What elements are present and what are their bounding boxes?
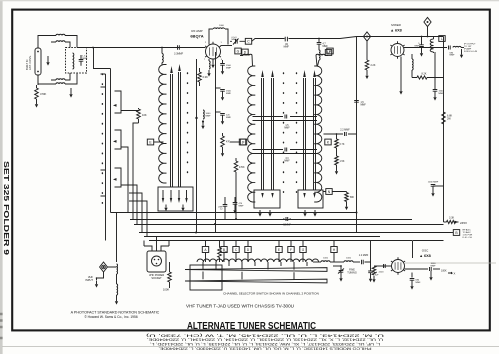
- svg-text:MMF: MMF: [232, 39, 238, 41]
- svg-text:FOR K & L/M: FOR K & L/M: [464, 51, 477, 53]
- svg-text:MMF: MMF: [415, 45, 421, 47]
- strip1 left wave coil: [159, 65, 164, 184]
- svg-text:2W: 2W: [447, 118, 451, 121]
- bus line 3: [134, 224, 444, 226]
- balun coil L1c: [56, 79, 65, 80]
- osc feed wire: [412, 241, 414, 259]
- if out coil: [453, 46, 461, 47]
- balun coil L1a: [56, 34, 65, 35]
- svg-text:470K: 470K: [239, 166, 245, 169]
- svg-text:1000 MMF: 1000 MMF: [428, 182, 439, 184]
- svg-text:3.3MMF: 3.3MMF: [174, 53, 184, 56]
- cap 1500 mixer: [434, 52, 436, 89]
- svg-text:1000: 1000: [346, 258, 352, 260]
- svg-text:E: E: [278, 248, 280, 252]
- RF AGC line: [451, 232, 453, 234]
- B plus 245V: [444, 221, 447, 223]
- wire ladder 6: [111, 212, 152, 214]
- cathode coil: [208, 59, 210, 61]
- svg-text:100K: 100K: [441, 270, 447, 273]
- cap 120MMF: [215, 111, 221, 113]
- if out cap: [449, 46, 451, 50]
- resistor 8.2K: [411, 70, 413, 78]
- svg-text:8.2K: 8.2K: [422, 73, 427, 76]
- svg-text:L: L: [441, 37, 443, 41]
- ground mixer: [400, 57, 402, 89]
- svg-text:1000: 1000: [219, 25, 225, 27]
- net label box H: [327, 48, 333, 54]
- strip1 bottom box: [158, 187, 193, 211]
- B+ vertical: [443, 37, 445, 223]
- net label box N: [326, 189, 332, 195]
- shaft link wires: [203, 266, 294, 280]
- svg-text:2200: 2200: [379, 272, 385, 274]
- coil drop to strip3: [318, 44, 320, 50]
- svg-text:MMF: MMF: [226, 67, 232, 69]
- net label box K: [325, 139, 331, 145]
- bus line 4: [139, 232, 451, 234]
- svg-text:K & L CH.: K & L CH.: [463, 237, 473, 239]
- plate coil loop: [209, 29, 228, 45]
- bus line 6: [149, 240, 412, 242]
- cap 470MMF bus: [234, 197, 236, 202]
- svg-text:A PHOTOFACT STANDARD NOTATI: A PHOTOFACT STANDARD NOTATION SCHEMATIC: [71, 311, 160, 315]
- junction dots on grid wire: [92, 47, 94, 49]
- svg-text:MMF: MMF: [284, 160, 290, 162]
- trap capacitor: [79, 60, 84, 62]
- svg-text:G: G: [237, 49, 240, 53]
- svg-text:3.3K: 3.3K: [449, 217, 454, 220]
- wire balun top: [38, 36, 77, 49]
- ground cathode: [208, 70, 210, 73]
- osc grid res: [374, 265, 379, 267]
- coupling wires lower: [253, 150, 318, 154]
- capacitor 3.3MMF series: [178, 45, 180, 50]
- svg-text:MMF: MMF: [206, 115, 212, 117]
- osc out gnd: [430, 271, 432, 274]
- dashed trap box: [66, 48, 87, 74]
- osc tube V3: [392, 260, 405, 273]
- cap 1.5 fine: [370, 262, 372, 271]
- strip2 contact dots: [283, 73, 285, 195]
- svg-text:X: X: [454, 272, 456, 276]
- wire mixer plate: [404, 47, 447, 49]
- cap 1500MMF a: [215, 87, 221, 89]
- mixer grid line: [356, 37, 358, 233]
- wire ant down: [37, 75, 39, 85]
- wire ladder 1: [125, 147, 128, 213]
- svg-text:1000: 1000: [323, 258, 329, 260]
- net label box F: [240, 139, 246, 145]
- svg-text:MMF: MMF: [361, 104, 367, 106]
- svg-text:10K: 10K: [142, 113, 147, 117]
- coil 1000 fine b: [344, 261, 353, 262]
- upside-down model list: [144, 333, 384, 350]
- net label box G: [235, 48, 241, 54]
- bus line 2: [130, 219, 412, 221]
- switch contact dots: [101, 74, 103, 208]
- cap .82MMF series: [285, 37, 287, 42]
- resistor 10K switch: [125, 108, 139, 111]
- svg-text:MMF: MMF: [82, 58, 88, 60]
- ground stub mid: [70, 88, 72, 91]
- resistor 470 ohm: [222, 133, 224, 136]
- wire ladder 5: [129, 201, 147, 237]
- uhf socket wires: [144, 237, 169, 252]
- svg-text:UUF: UUF: [374, 274, 379, 276]
- osc out cap 1000: [430, 267, 432, 271]
- resistor 2.2K osc inj: [365, 60, 369, 70]
- svg-text:J: J: [242, 140, 244, 144]
- strip2 arrow 1: [262, 78, 264, 190]
- switch contact 2: [115, 130, 126, 149]
- resistor 6.8K 2W: [442, 112, 446, 124]
- wire 470K drop: [235, 175, 237, 219]
- trimmer cap 0.5-3: [236, 39, 238, 44]
- uhf filter coil 1: [117, 264, 118, 274]
- resistor 470K ant: [35, 88, 39, 99]
- strip2 bottom box: [254, 190, 280, 208]
- osc fold line: [405, 262, 496, 264]
- ground if out: [461, 49, 463, 52]
- svg-text:MMF: MMF: [450, 55, 456, 57]
- strip3 wave ticks: [314, 66, 317, 202]
- cap 2.2MMF: [345, 132, 347, 136]
- svg-text:U, M, 22D4143, L, U, UL, 22D41: U, M, 22D4143, L, U, UL, 22D4145, M, T, …: [144, 333, 384, 337]
- cap 1.2MMF fine: [362, 260, 364, 264]
- switch stub wires left: [101, 74, 106, 196]
- wire down to switch: [94, 48, 111, 69]
- svg-text:▲ 6X8: ▲ 6X8: [419, 254, 431, 258]
- wire plate to trimmer: [221, 45, 233, 47]
- svg-text:1.2 MMF: 1.2 MMF: [359, 254, 369, 257]
- mixer tube V2: [391, 44, 404, 57]
- svg-text:2.2K: 2.2K: [371, 64, 376, 67]
- strip1 label wire2: [230, 141, 240, 143]
- selector coil chain: [197, 259, 319, 262]
- switch contact 3: [115, 168, 130, 187]
- strip3 right wave: [317, 66, 322, 202]
- net label box M: [325, 50, 331, 56]
- coupling wires upper: [253, 117, 318, 121]
- balun coil L1d: [56, 83, 65, 84]
- svg-text:MMF: MMF: [431, 265, 437, 267]
- strip1 arrow 1: [171, 74, 173, 187]
- net label box L: [439, 36, 445, 42]
- ground balun center: [47, 56, 49, 59]
- resistor 470K b: [235, 158, 237, 161]
- selector chain ticks: [203, 262, 307, 266]
- strip3 grounds: [304, 210, 306, 213]
- strip3 arrow 2: [314, 78, 316, 190]
- cap 5MMF mixer: [421, 37, 423, 45]
- resistor 6.7K: [336, 134, 338, 139]
- net label box D: [242, 49, 248, 55]
- strip3 arrow 1: [304, 78, 306, 190]
- svg-text:MMF: MMF: [226, 117, 232, 119]
- page fold line bottom: [2, 346, 499, 348]
- VHF input socket: [100, 262, 108, 272]
- svg-text:CHANNEL SELECTOR SWITCH SHOWN: CHANNEL SELECTOR SWITCH SHOWN IN CHANNEL…: [223, 292, 319, 296]
- cap 68MMF bus: [283, 218, 285, 220]
- selector shaft arrow 2: [185, 279, 327, 283]
- feed blob: [202, 120, 204, 122]
- svg-text:▲ 6X8: ▲ 6X8: [390, 29, 402, 33]
- svg-text:MMF: MMF: [284, 127, 290, 129]
- svg-text:© Howard W. Sams & Co., Inc. 1: © Howard W. Sams & Co., Inc. 1956: [84, 315, 138, 319]
- uhf power socket: [152, 256, 162, 266]
- binding marks: [0, 314, 3, 338]
- wire mixer top: [357, 36, 444, 38]
- svg-text:SET 325 FOLDER 9: SET 325 FOLDER 9: [2, 161, 11, 255]
- resistor 2.3K: [199, 68, 201, 72]
- svg-text:MMF: MMF: [239, 205, 245, 207]
- strip3 bottom box: [298, 190, 323, 208]
- strip2 wave ticks: [253, 66, 256, 202]
- svg-text:INPUT: INPUT: [85, 278, 93, 282]
- coil 1000 fine a: [321, 261, 330, 262]
- svg-text:470K: 470K: [40, 92, 46, 96]
- mixer osc coil: [430, 37, 433, 53]
- selector shaft arrow 1: [185, 268, 327, 272]
- uhf power socket box: [147, 251, 166, 272]
- svg-text:ANT. CONN.: ANT. CONN.: [28, 55, 32, 70]
- svg-text:2.2 MMF: 2.2 MMF: [340, 129, 350, 132]
- svg-text:MMF: MMF: [323, 46, 329, 48]
- coil 1000MMF feed: [203, 110, 204, 119]
- cap 4.7MMF drop: [318, 39, 320, 43]
- svg-text:6.7K: 6.7K: [340, 143, 345, 146]
- wire ladder 3: [129, 185, 137, 224]
- resistor 47K: [219, 241, 221, 248]
- uhf filter coil 2: [117, 284, 118, 295]
- svg-text:B: B: [223, 248, 225, 252]
- osc out wire: [405, 268, 429, 270]
- net label box J: [239, 139, 245, 145]
- svg-text:TUNING: TUNING: [347, 272, 357, 275]
- shaft box: [190, 265, 222, 290]
- svg-text:100K: 100K: [163, 288, 169, 292]
- cap line end: [224, 197, 226, 204]
- page top edge: [0, 0, 499, 1]
- wire screen drop: [196, 59, 198, 233]
- net diamond A: [363, 32, 370, 41]
- wafer bus stubs: [206, 241, 335, 247]
- RF amp tube V1: [206, 44, 221, 59]
- cap 1500 under tube: [222, 60, 224, 63]
- svg-text:245V: 245V: [460, 221, 467, 225]
- trap coil: [73, 53, 74, 69]
- net label box E: [147, 139, 153, 145]
- strip2 arrow 2: [272, 78, 274, 190]
- svg-text:1.5K: 1.5K: [340, 160, 345, 163]
- cap 1.5MMF mixergrid: [353, 98, 360, 100]
- svg-text:MIXER: MIXER: [391, 23, 401, 27]
- resistor 100K: [169, 262, 171, 272]
- net diamond B top: [424, 17, 431, 26]
- wire balun bottom: [38, 73, 77, 84]
- coupling cap 1.5MMF: [285, 115, 287, 119]
- mixer cathode coil: [411, 54, 413, 59]
- svg-text:MMF: MMF: [226, 93, 232, 95]
- cap 1000MMF bplus: [433, 185, 444, 187]
- svg-text:OSC: OSC: [422, 249, 429, 253]
- wire ladder 2: [133, 123, 139, 219]
- wire antenna to RF grid: [77, 47, 206, 49]
- strip1 grounds: [165, 205, 167, 208]
- bypass column wire: [215, 52, 217, 233]
- ground tube center: [212, 59, 214, 62]
- channel selector wafers: [202, 247, 208, 253]
- svg-text:ALTERNATE TUNER SCHEMATIC: ALTERNATE TUNER SCHEMATIC: [187, 321, 316, 332]
- svg-text:2.3K: 2.3K: [203, 75, 209, 79]
- wire vhf input: [97, 267, 117, 281]
- svg-text:F: F: [290, 248, 292, 252]
- strip3 contact dots: [296, 73, 298, 195]
- switch contact 1: [115, 91, 126, 113]
- antenna terminal board: [35, 48, 41, 75]
- strip1 contact dots: [187, 73, 189, 177]
- strip2 top coil: [243, 54, 252, 55]
- strip2 left wave: [248, 66, 253, 202]
- wire chain right: [313, 261, 321, 263]
- svg-text:6BQ7A: 6BQ7A: [190, 34, 203, 39]
- switch bus line a: [105, 74, 107, 241]
- strip1 arrow 2: [179, 72, 181, 187]
- osc cathode gnd: [411, 273, 413, 278]
- ground vhf: [96, 281, 98, 284]
- wire ladder 4: [129, 193, 142, 233]
- strip2 grounds: [259, 210, 261, 213]
- coupling cap 3.3MMF: [285, 148, 287, 152]
- bus line 5: [144, 236, 380, 238]
- svg-text:MMF: MMF: [284, 46, 290, 48]
- svg-text:MMF: MMF: [416, 282, 422, 284]
- plate coil: [214, 28, 225, 29]
- resistor 1.5K: [336, 148, 338, 156]
- bus line 1: [127, 212, 357, 214]
- fine tuning cap: [340, 266, 342, 270]
- svg-text:SOCKET: SOCKET: [151, 277, 162, 280]
- strip1 label wire: [154, 141, 164, 143]
- resistor 680 strip3: [346, 192, 348, 193]
- svg-text:VHF TUNER T-JAD USED WITH CHAS: VHF TUNER T-JAD USED WITH CHASSIS TV-300…: [186, 304, 294, 309]
- balun coil L1b: [56, 41, 65, 42]
- strip3 top coil: [316, 54, 325, 55]
- net label box C: [245, 38, 251, 44]
- neut cap: [215, 25, 217, 27]
- svg-text:470: 470: [226, 141, 231, 144]
- switch bus line b: [110, 69, 112, 213]
- osc grid cap: [383, 265, 392, 267]
- wire trimmer to interstage: [242, 37, 357, 42]
- strip1 box arrows: [163, 190, 187, 198]
- ground uhf filter: [116, 295, 118, 298]
- svg-text:RF AMP: RF AMP: [191, 29, 202, 33]
- wire switch to vhf input: [116, 213, 118, 263]
- strip1 wave ticks: [164, 65, 167, 184]
- page left edge: [0, 0, 3, 354]
- wire wave3 to 2.2MMF: [324, 133, 357, 135]
- bus junction dots: [195, 232, 197, 234]
- strip1 top coil: [161, 48, 163, 54]
